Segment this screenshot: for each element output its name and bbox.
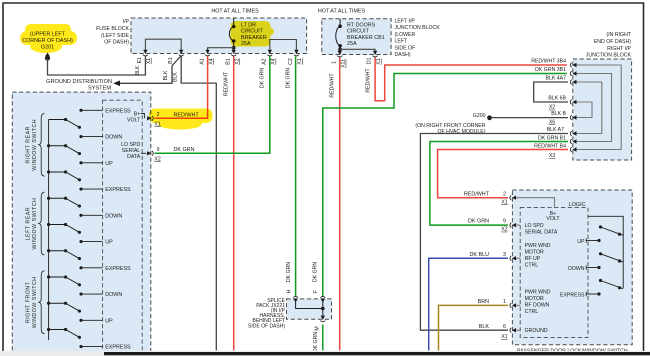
svg-text:BLK: BLK — [479, 324, 490, 330]
svg-text:RIGHT FRONT: RIGHT FRONT — [26, 281, 32, 323]
svg-text:SERIAL DATA: SERIAL DATA — [525, 229, 558, 235]
svg-text:LO SPD: LO SPD — [525, 223, 544, 229]
switch arm 3 (master switch) — [49, 171, 66, 173]
svg-text:25A: 25A — [347, 41, 357, 47]
svg-text:(LEFT SIDE: (LEFT SIDE — [101, 33, 129, 39]
svg-text:BLK 4A7: BLK 4A7 — [546, 76, 567, 82]
svg-text:SIDE OF DASH): SIDE OF DASH) — [248, 323, 285, 329]
svg-text:E1: E1 — [137, 57, 143, 63]
svg-text:D1: D1 — [367, 57, 373, 64]
svg-text:RF UP: RF UP — [525, 256, 541, 262]
wire internal B+ pin 2 to logic module — [517, 198, 555, 208]
junction dot CB1 output / branch to pin D1 — [338, 48, 342, 52]
svg-text:X2: X2 — [235, 58, 241, 64]
wire RED/WHT left junction pin D1 to right junction pin 3B4 — [375, 58, 567, 101]
svg-text:BLK 6B: BLK 6B — [548, 96, 566, 102]
switch arm 8 (master switch) — [49, 302, 66, 304]
svg-text:DASH): DASH) — [395, 52, 411, 58]
pin 2/X1 (passenger switch B+) — [512, 196, 516, 200]
splice pack JX221 (dashed box) — [287, 299, 332, 319]
svg-text:X1: X1 — [376, 58, 382, 64]
highlighter mark over LT DR circuit breaker label — [231, 21, 275, 47]
svg-text:C2: C2 — [288, 58, 294, 65]
svg-text:HOT AT ALL TIMES: HOT AT ALL TIMES — [318, 8, 366, 14]
svg-text:(LOWER: (LOWER — [395, 32, 416, 38]
svg-text:WINDOW SWITCH: WINDOW SWITCH — [32, 119, 38, 171]
junction dot breaker output / branch to pin A1 — [232, 46, 236, 50]
svg-text:F: F — [313, 290, 319, 293]
pin H (splice pack top) — [293, 299, 297, 303]
wire BLK fuse pin B1 down left side (net to right block A7 area) — [181, 57, 216, 351]
pin B1/X2 (fuse block) — [232, 50, 236, 54]
svg-text:CIRCUIT: CIRCUIT — [347, 29, 370, 35]
svg-text:LEFT I/P: LEFT I/P — [395, 19, 416, 25]
svg-text:EXPRESS: EXPRESS — [105, 187, 131, 193]
fuse block internal jumper E1-B1 — [145, 39, 181, 53]
svg-text:SIDE OF: SIDE OF — [395, 45, 416, 51]
svg-text:DOWN: DOWN — [105, 213, 122, 219]
svg-text:B1: B1 — [226, 58, 232, 64]
svg-text:BLK: BLK — [135, 65, 141, 75]
svg-text:DATA: DATA — [127, 154, 141, 160]
pin A7 (right junction block) — [572, 131, 576, 135]
svg-text:DOWN: DOWN — [105, 292, 122, 298]
svg-text:EXPRESS: EXPRESS — [105, 266, 131, 272]
left I/P junction block (dashed box) — [322, 19, 391, 55]
svg-text:X1: X1 — [501, 199, 507, 205]
svg-text:DK GRN 3B1: DK GRN 3B1 — [535, 67, 566, 73]
pin 1 (passenger switch RF down ctrl) — [512, 303, 516, 307]
svg-text:BLK B: BLK B — [551, 111, 566, 117]
svg-text:DK GRN: DK GRN — [286, 262, 292, 282]
svg-text:DK GRN: DK GRN — [260, 68, 266, 88]
wire RED/WHT fuse pin B1/X2 down to cut edge — [233, 57, 235, 351]
pin D1/X1 (left junction block) — [373, 51, 377, 55]
svg-text:RED/WHT: RED/WHT — [330, 73, 336, 98]
svg-text:M: M — [314, 326, 320, 330]
svg-text:DK BLU: DK BLU — [470, 252, 490, 258]
contact DOWN row 8 (master switch) — [81, 293, 103, 295]
master switch supply bus — [48, 120, 50, 341]
svg-text:DOWN: DOWN — [105, 135, 122, 141]
pin 1/X11 (left junction block) — [338, 51, 342, 55]
contact UP row 6 (master switch) — [81, 241, 103, 243]
contact DOWN row 2 (master switch) — [81, 136, 103, 138]
right I/P junction block (dashed box) — [573, 59, 632, 160]
svg-text:WINDOW SWITCH: WINDOW SWITCH — [32, 276, 38, 328]
svg-text:BLK: BLK — [163, 70, 169, 80]
pin B/X6 (right junction block) — [572, 115, 576, 119]
svg-text:2: 2 — [503, 191, 506, 197]
svg-text:X4: X4 — [271, 58, 277, 64]
svg-text:DOWN: DOWN — [568, 266, 585, 272]
svg-text:UP: UP — [105, 240, 113, 246]
contact EXPRESS row 1 (master switch) — [81, 109, 103, 111]
wire DK GRN right junction pin B1 to passenger switch pin 9 — [430, 142, 568, 226]
pin A1/X4 (fuse block) — [205, 50, 209, 54]
highlighter mark over G201 note — [20, 24, 77, 53]
wire BRN passenger switch pin 1 down to cut edge — [439, 305, 509, 350]
switch arm (passenger EXPRESS) — [601, 281, 624, 289]
wire BLK jumper pin 4A7 to pin 6B — [534, 82, 568, 102]
I/P fuse block U1 (dashed box) — [131, 18, 307, 54]
svg-text:RED/WHT 3B4: RED/WHT 3B4 — [531, 59, 566, 65]
svg-text:9: 9 — [157, 147, 160, 153]
svg-text:VOLT: VOLT — [127, 117, 141, 123]
svg-text:(ON RIGHT FRONT CORNER: (ON RIGHT FRONT CORNER — [415, 123, 485, 129]
svg-text:X1: X1 — [146, 58, 152, 64]
switch arm 4 (master switch) — [49, 197, 66, 199]
wire DK GRN fuse pin C2 to splice pack pin H — [295, 57, 297, 297]
svg-text:LOGIC: LOGIC — [569, 202, 586, 208]
pin 6/X1 (passenger switch ground) — [512, 328, 516, 332]
pin 9/X2 (passenger switch serial data) — [512, 223, 516, 227]
pin 4A7 (right junction block) — [572, 80, 576, 84]
bottom scrollbar strip — [0, 351, 650, 356]
svg-text:G200: G200 — [473, 113, 486, 119]
contact DOWN row 5 (master switch) — [81, 214, 103, 216]
passenger door lock/window switch (dashed box) — [512, 190, 632, 345]
svg-text:UP: UP — [105, 161, 113, 167]
brace group RIGHT FRONT WINDOW SWITCH — [39, 271, 45, 334]
circuit breaker CB1 RT DOORS 25A — [339, 19, 341, 26]
svg-text:DK GRN: DK GRN — [468, 219, 489, 225]
svg-text:X4: X4 — [208, 58, 214, 64]
svg-text:LEFT REAR: LEFT REAR — [26, 207, 32, 240]
svg-text:DK GRN: DK GRN — [313, 332, 319, 352]
brace group RIGHT REAR WINDOW SWITCH — [39, 113, 45, 176]
svg-text:X3: X3 — [549, 153, 555, 159]
switch arm (passenger DOWN) — [601, 254, 624, 262]
svg-text:CTRL: CTRL — [525, 263, 539, 269]
svg-text:BLK A7: BLK A7 — [547, 127, 564, 133]
pin 6B/X2 (right junction block) — [572, 100, 576, 104]
wire DK BLU passenger switch pin 3 down to cut edge — [429, 258, 508, 350]
svg-text:A1: A1 — [199, 58, 205, 64]
pin B1 ground (fuse block) — [179, 50, 183, 54]
right junction internal jumper 3B4-B4 — [574, 65, 621, 150]
svg-text:PWR WND: PWR WND — [525, 243, 551, 249]
right junction internal jumper 6B-B — [574, 102, 592, 118]
circuit breaker LT DR 25A — [233, 18, 235, 27]
svg-text:WINDOW SWITCH: WINDOW SWITCH — [32, 198, 38, 250]
switch arm 6 (master switch) — [49, 250, 66, 252]
svg-text:X6: X6 — [549, 119, 555, 125]
svg-text:JUNCTION BLOCK: JUNCTION BLOCK — [395, 25, 441, 31]
driver master window switch (dashed box) — [12, 92, 151, 356]
svg-text:A2: A2 — [262, 58, 268, 64]
svg-text:6: 6 — [503, 324, 506, 330]
svg-text:DK GRN: DK GRN — [174, 147, 195, 153]
pin 3 (passenger switch RF up ctrl) — [512, 256, 516, 260]
pin C2/X1 (fuse block) — [294, 50, 298, 54]
wire DK GRN splice pin M down to cut edge — [322, 325, 324, 351]
svg-text:X11: X11 — [341, 59, 347, 68]
svg-text:RIGHT REAR: RIGHT REAR — [26, 126, 32, 163]
svg-text:9: 9 — [503, 219, 506, 225]
right junction internal jumper 3B1-B1 — [574, 74, 612, 142]
svg-text:RIGHT I/P: RIGHT I/P — [607, 46, 631, 52]
svg-text:CTRL: CTRL — [525, 309, 539, 315]
wire BLK fuse pin B1 to ground distribution system — [120, 56, 181, 84]
svg-text:EXPRESS: EXPRESS — [560, 292, 585, 298]
svg-text:RED/WHT: RED/WHT — [224, 71, 230, 96]
svg-text:X1: X1 — [297, 58, 303, 64]
brace group LEFT REAR WINDOW SWITCH — [39, 192, 45, 255]
wire RED/WHT right junction pin B4 to passenger switch pin 2 — [438, 150, 568, 198]
svg-text:END OF DASH): END OF DASH) — [594, 39, 631, 45]
wire BLK right junction pin A7 to passenger switch ground pin 6 — [420, 134, 568, 331]
svg-text:HOT AT ALL TIMES: HOT AT ALL TIMES — [211, 8, 259, 14]
svg-text:RT DOORS: RT DOORS — [347, 22, 376, 28]
contact UP row 3 (master switch) — [81, 162, 103, 164]
svg-text:RED/WHT: RED/WHT — [464, 191, 490, 197]
switch arm 9 (master switch) — [49, 329, 66, 331]
svg-text:RF DOWN: RF DOWN — [525, 303, 550, 309]
wire BLK G201 to fuse block pin E1 — [48, 57, 146, 76]
right junction internal jumper 4A7-A7 — [574, 82, 602, 134]
svg-text:1: 1 — [503, 299, 506, 305]
svg-text:SYSTEM: SYSTEM — [88, 86, 111, 92]
svg-text:OF HVAC MODULE): OF HVAC MODULE) — [437, 129, 485, 135]
svg-text:X1: X1 — [501, 334, 507, 340]
svg-text:EXPRESS: EXPRESS — [105, 108, 131, 114]
switch arm 1 (master switch) — [49, 119, 66, 121]
svg-text:JUNCTION BLOCK: JUNCTION BLOCK — [586, 53, 632, 59]
svg-text:OF DASH): OF DASH) — [104, 40, 129, 46]
switch arm 7 (master switch) — [49, 276, 66, 278]
svg-text:X2: X2 — [501, 227, 507, 233]
svg-text:MOTOR: MOTOR — [525, 250, 544, 256]
svg-text:BLK: BLK — [173, 72, 179, 82]
svg-text:UP: UP — [577, 239, 585, 245]
svg-text:EXPRESS: EXPRESS — [105, 345, 131, 351]
pin A2/X4 (fuse block) — [268, 50, 272, 54]
master switch contact plate (inner dashed box) — [103, 100, 143, 356]
svg-text:RED/WHT: RED/WHT — [366, 68, 372, 93]
wire RED/WHT left junction pin 1/X11 down to cut edge — [339, 58, 341, 351]
svg-text:GROUND DISTRIBUTION: GROUND DISTRIBUTION — [46, 79, 112, 85]
wire DK GRN fuse pin A2 to master switch pin 9 (serial data) — [155, 57, 270, 154]
wire RED/WHT fuse pin A1 to master switch pin 2 (B+) — [155, 57, 208, 119]
svg-text:MOTOR: MOTOR — [525, 296, 544, 302]
svg-text:B1: B1 — [168, 57, 174, 63]
svg-text:X2: X2 — [549, 105, 555, 111]
splice pack internal bus and junction dot — [296, 300, 323, 309]
svg-text:BRN: BRN — [478, 299, 489, 305]
svg-text:FUSE BLOCK: FUSE BLOCK — [96, 26, 129, 32]
pin E1/X1 (fuse block) — [143, 50, 147, 54]
contact EXPRESS row 10 (master switch) — [81, 346, 103, 348]
svg-text:BREAKER CB1: BREAKER CB1 — [347, 35, 385, 41]
highlighter mark over B+ RED/WHT wire at master switch pin 2 — [149, 109, 213, 130]
svg-text:1: 1 — [332, 61, 338, 64]
svg-text:DK GRN: DK GRN — [285, 68, 291, 88]
switch arm (passenger UP) — [601, 227, 624, 235]
switch arm 2 (master switch) — [49, 145, 66, 147]
contact EXPRESS row 7 (master switch) — [81, 267, 103, 269]
svg-text:VOLT: VOLT — [546, 216, 560, 222]
svg-text:DK GRN: DK GRN — [313, 262, 319, 282]
contact UP row 9 (master switch) — [81, 319, 103, 321]
fuse block internal jumper A2-C2 — [270, 40, 297, 54]
svg-text:(IN RIGHT: (IN RIGHT — [607, 32, 632, 38]
contact EXPRESS row 4 (master switch) — [81, 188, 103, 190]
svg-text:H: H — [287, 289, 293, 293]
pin B4/X3 (right junction block) — [572, 147, 576, 151]
svg-text:GROUND: GROUND — [525, 328, 548, 334]
wire DK GRN splice pack pin F to right junction pin 3B1 — [323, 74, 567, 297]
svg-text:UP: UP — [105, 318, 113, 324]
switch arm 5 (master switch) — [49, 224, 66, 226]
pin B1 (right junction block) — [572, 139, 576, 143]
pin 3B4 (right junction block) — [572, 63, 576, 67]
svg-text:PWR WND: PWR WND — [525, 290, 551, 296]
logic module box (dashed) — [520, 207, 588, 337]
svg-text:I/P: I/P — [123, 19, 130, 25]
svg-text:LEFT: LEFT — [395, 39, 409, 45]
pin F (splice pack top) — [321, 299, 325, 303]
svg-text:X2: X2 — [154, 156, 160, 162]
svg-text:3: 3 — [503, 252, 506, 258]
passenger switch supply bus — [588, 216, 623, 288]
pin M (splice pack bottom) — [321, 316, 325, 320]
pin 3B1 (right junction block) — [572, 71, 576, 75]
